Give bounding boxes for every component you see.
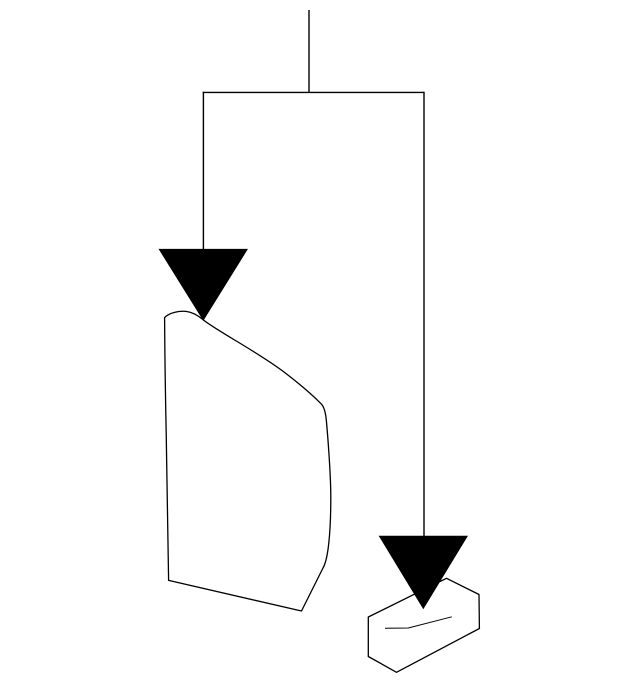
- wire: horizontal connector: [203, 91, 425, 93]
- wire: top vertical stem: [308, 10, 310, 92]
- wire: right vertical branch: [423, 92, 425, 537]
- wire: squiggle inside slab: [385, 617, 452, 629]
- arrowhead: right filled triangle: [380, 536, 468, 608]
- arrowhead: left filled triangle: [159, 249, 247, 320]
- node A: large freehand blob shape: [165, 311, 331, 611]
- wire: left vertical branch: [202, 92, 204, 250]
- node B: small freehand slab shape: [368, 578, 479, 672]
